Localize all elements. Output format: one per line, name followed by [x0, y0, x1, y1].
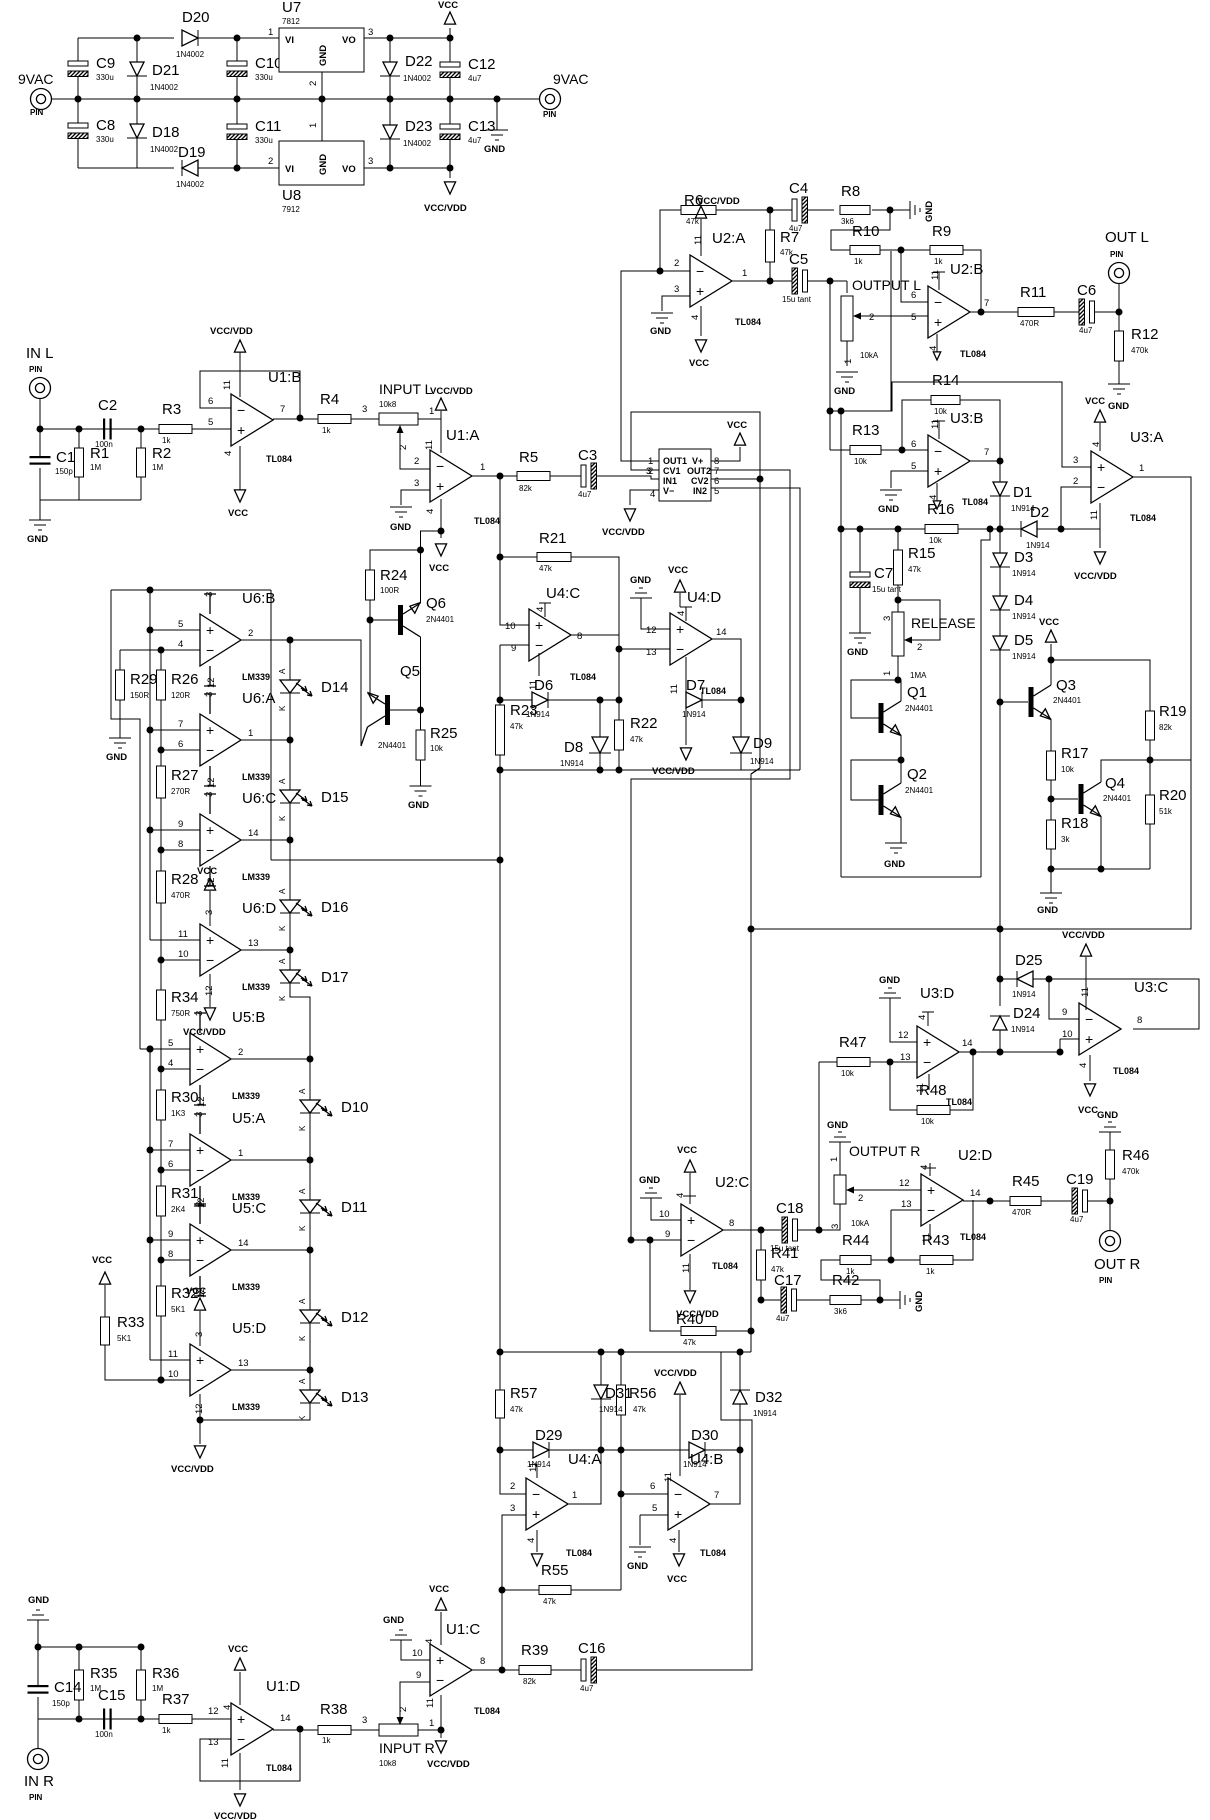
svg-text:120R: 120R — [171, 691, 190, 700]
svg-text:C12: C12 — [468, 56, 496, 73]
svg-text:GND: GND — [390, 522, 411, 533]
svg-text:2N4401: 2N4401 — [905, 704, 934, 713]
svg-text:R31: R31 — [171, 1185, 199, 1202]
pin OUT R — [1109, 1201, 1111, 1231]
svg-text:−: − — [196, 1162, 204, 1178]
diode D31 — [600, 1352, 602, 1385]
U5:D VCC/VDD flag — [199, 1420, 201, 1444]
svg-text:U7: U7 — [282, 0, 301, 16]
Q1 emitter to Q2 collector — [900, 735, 902, 760]
svg-text:VI: VI — [285, 164, 294, 175]
svg-text:2: 2 — [1073, 476, 1078, 487]
svg-text:47k: 47k — [630, 735, 644, 744]
svg-text:4: 4 — [424, 1639, 435, 1644]
resistor R38 — [318, 1726, 351, 1735]
D2 to U3:A - input — [1061, 487, 1091, 529]
transistor Q5 — [390, 709, 421, 711]
svg-text:5: 5 — [652, 1503, 657, 1514]
capacitor C11 — [234, 165, 241, 172]
svg-text:VO: VO — [342, 35, 356, 46]
Q2 collector wire — [900, 760, 902, 783]
svg-text:GND: GND — [1037, 905, 1058, 916]
svg-text:+: + — [535, 617, 543, 633]
wire chain D14 anode — [289, 740, 291, 790]
svg-text:D12: D12 — [341, 1309, 369, 1326]
resistor R17 — [1047, 751, 1056, 780]
OUTPUT L pot pin1 gnd — [846, 341, 848, 366]
U6:D output wire pin 13 — [241, 949, 290, 951]
svg-text:9VAC: 9VAC — [553, 71, 589, 87]
svg-text:VCC/VDD: VCC/VDD — [1074, 571, 1117, 582]
U5:C + input wire pin 9 — [150, 1239, 190, 1241]
svg-text:RELEASE: RELEASE — [911, 615, 976, 631]
svg-text:A: A — [278, 778, 287, 784]
LED D17 — [280, 970, 300, 983]
U1:D power pin11 down — [239, 1753, 241, 1790]
U2:D - input wire — [891, 1209, 921, 1211]
svg-text:330u: 330u — [96, 135, 114, 144]
transistor Q4 — [1079, 784, 1084, 814]
svg-text:R40: R40 — [676, 1311, 704, 1328]
svg-text:7: 7 — [984, 447, 989, 458]
svg-text:8: 8 — [729, 1218, 734, 1229]
divider resistor R29 to gnd — [120, 649, 161, 651]
svg-text:12: 12 — [194, 1403, 205, 1414]
svg-text:U4:C: U4:C — [546, 585, 580, 602]
U6:A output wire pin 1 — [241, 739, 290, 741]
svg-text:2: 2 — [648, 466, 653, 477]
svg-text:K: K — [278, 995, 287, 1001]
U2:B output wire — [970, 311, 1018, 313]
svg-text:1N4002: 1N4002 — [403, 74, 432, 83]
svg-text:C1: C1 — [56, 449, 75, 466]
svg-text:VCC: VCC — [689, 358, 709, 369]
svg-text:2: 2 — [674, 258, 679, 269]
wire 9VAC-L to rails — [52, 98, 79, 100]
U2:A + input gnd — [662, 296, 690, 311]
svg-text:R46: R46 — [1122, 1147, 1150, 1164]
U4:A + input wire — [502, 1515, 526, 1590]
svg-text:OUT R: OUT R — [1094, 1256, 1141, 1273]
svg-text:R32: R32 — [171, 1285, 199, 1302]
resistor R11 — [1018, 308, 1054, 317]
svg-text:D14: D14 — [321, 679, 349, 696]
svg-text:11: 11 — [693, 235, 704, 245]
diode D3 — [999, 529, 1001, 553]
svg-text:U8: U8 — [282, 187, 301, 204]
svg-text:K: K — [298, 1335, 307, 1341]
diode D29 — [500, 1449, 533, 1451]
svg-text:3: 3 — [368, 27, 373, 38]
svg-text:R14: R14 — [932, 372, 960, 389]
transistor Q1 — [898, 680, 901, 701]
svg-text:U6:C: U6:C — [242, 790, 276, 807]
U4:A - input wire — [500, 1450, 526, 1494]
svg-text:R33: R33 — [117, 1314, 145, 1331]
svg-text:3: 3 — [1073, 455, 1078, 466]
rail B IN R — [38, 1718, 159, 1720]
U3:C - input wire — [1049, 979, 1079, 1019]
resistor R12 — [1118, 312, 1120, 331]
resistor R48 feedback — [890, 1062, 917, 1110]
svg-text:R10: R10 — [852, 223, 880, 240]
svg-text:R42: R42 — [832, 1272, 860, 1289]
svg-text:+: + — [196, 1041, 204, 1057]
svg-text:U3:C: U3:C — [1134, 979, 1168, 996]
svg-text:3: 3 — [194, 1332, 205, 1337]
svg-text:U5:A: U5:A — [232, 1110, 265, 1127]
svg-text:OUT L: OUT L — [1105, 229, 1149, 246]
svg-text:TL084: TL084 — [1130, 513, 1156, 523]
U3:A power flag VCC up — [1099, 423, 1101, 451]
wire chain D12 anode — [309, 1250, 311, 1310]
svg-text:2: 2 — [414, 456, 419, 467]
svg-text:D16: D16 — [321, 899, 349, 916]
svg-text:10kA: 10kA — [860, 351, 879, 360]
svg-text:R57: R57 — [510, 1385, 538, 1402]
svg-text:VCC/VDD: VCC/VDD — [654, 1368, 697, 1379]
svg-text:7: 7 — [178, 719, 183, 730]
svg-text:R9: R9 — [932, 223, 951, 240]
svg-text:D15: D15 — [321, 789, 349, 806]
U2:C - input wire — [628, 1237, 635, 1244]
resistor R25 — [420, 710, 422, 730]
LED D10 — [300, 1100, 320, 1113]
resistor R10 — [831, 210, 890, 250]
pin OUT L — [1118, 283, 1120, 312]
op-amp U3:A — [1091, 451, 1133, 503]
capacitor C6 — [1079, 299, 1085, 325]
svg-text:C18: C18 — [776, 1200, 804, 1217]
svg-text:VCC: VCC — [1078, 1105, 1098, 1116]
svg-text:9: 9 — [416, 1670, 421, 1681]
U5:D + input wire pin 11 — [150, 1359, 190, 1361]
svg-text:D6: D6 — [534, 677, 553, 694]
resistor R4 — [318, 415, 351, 424]
svg-text:D10: D10 — [341, 1099, 369, 1116]
U5:C - input wire pin 8 — [161, 1259, 190, 1261]
Q3 emitter to R17 — [1050, 719, 1052, 751]
svg-text:D24: D24 — [1013, 1005, 1041, 1022]
svg-text:LM339: LM339 — [232, 1282, 260, 1292]
diode D6 — [497, 697, 504, 704]
svg-text:+: + — [237, 422, 245, 438]
svg-text:+: + — [696, 283, 704, 299]
svg-text:D13: D13 — [341, 1389, 369, 1406]
svg-text:C14: C14 — [54, 1679, 82, 1696]
op-amp U1:B — [231, 394, 273, 446]
svg-text:GND: GND — [484, 144, 505, 155]
svg-text:1: 1 — [238, 1148, 243, 1159]
D chain down to CV rail — [999, 702, 1001, 979]
svg-text:PIN: PIN — [1099, 1276, 1113, 1285]
R44 to - input — [890, 1210, 892, 1260]
svg-text:K: K — [298, 1125, 307, 1131]
svg-text:150p: 150p — [52, 1699, 70, 1708]
CV2 pin6 wire — [711, 478, 760, 480]
svg-text:+: + — [206, 622, 214, 638]
svg-text:47k: 47k — [510, 722, 524, 731]
U6:D power pin 12 VCC/VDD flag — [209, 974, 211, 1007]
svg-text:1N4002: 1N4002 — [176, 50, 205, 59]
diode D8 — [599, 700, 601, 739]
svg-text:4: 4 — [223, 451, 234, 456]
svg-text:VCC/VDD: VCC/VDD — [171, 1464, 214, 1475]
svg-text:330u: 330u — [255, 73, 273, 82]
svg-text:3: 3 — [362, 404, 367, 415]
rail A IN R — [38, 1646, 141, 1648]
threshold box left wire — [840, 529, 842, 877]
svg-text:1N914: 1N914 — [1012, 990, 1036, 999]
svg-text:10k8: 10k8 — [379, 400, 397, 409]
U2:C power flag VCC — [684, 1160, 695, 1172]
svg-text:1MA: 1MA — [910, 671, 927, 680]
svg-text:PIN: PIN — [29, 365, 43, 374]
svg-text:R29: R29 — [130, 671, 158, 688]
svg-text:47k: 47k — [683, 1338, 697, 1347]
svg-text:3k: 3k — [1061, 835, 1070, 844]
U6:D power pin 3 VCC flag — [209, 891, 211, 926]
svg-text:TL084: TL084 — [566, 1548, 592, 1558]
trunk vertical from U1:A — [500, 476, 529, 625]
svg-text:47k: 47k — [633, 1405, 647, 1414]
svg-text:C4: C4 — [789, 180, 808, 197]
svg-text:VCC/VDD: VCC/VDD — [424, 203, 467, 214]
svg-text:INPUT L: INPUT L — [379, 381, 433, 397]
comparator U5:A — [190, 1134, 231, 1186]
U5:D power pin 12 wire — [199, 1394, 201, 1420]
capacitor C12 — [447, 35, 454, 42]
svg-text:1k: 1k — [322, 1736, 331, 1745]
op-amp U2:D — [921, 1174, 963, 1226]
U2:B - input wire — [901, 250, 928, 302]
svg-text:C17: C17 — [774, 1272, 802, 1289]
svg-text:GND: GND — [834, 386, 855, 397]
svg-text:+: + — [196, 1232, 204, 1248]
U6:C output wire pin 14 — [241, 839, 290, 841]
wire U8 output — [364, 167, 450, 169]
resistor R26 — [160, 650, 162, 670]
svg-text:8: 8 — [1137, 1015, 1142, 1026]
gnd rail under R1 R2 — [40, 499, 141, 501]
svg-text:R12: R12 — [1131, 326, 1159, 343]
svg-text:GND: GND — [318, 45, 329, 66]
svg-text:R26: R26 — [171, 671, 199, 688]
svg-text:D3: D3 — [1014, 549, 1033, 566]
svg-text:−: − — [934, 294, 942, 310]
svg-text:R56: R56 — [629, 1385, 657, 1402]
svg-text:1N4002: 1N4002 — [176, 180, 205, 189]
svg-text:12: 12 — [204, 985, 215, 996]
svg-text:12: 12 — [208, 1706, 219, 1717]
svg-text:D17: D17 — [321, 969, 349, 986]
svg-text:10k: 10k — [854, 457, 868, 466]
svg-text:1N914: 1N914 — [1012, 569, 1036, 578]
comparator U6:D — [200, 924, 241, 976]
resistor R47 — [819, 1061, 837, 1063]
svg-text:R37: R37 — [162, 1691, 190, 1708]
svg-text:4u7: 4u7 — [776, 1314, 790, 1323]
svg-text:470R: 470R — [1012, 1208, 1031, 1217]
svg-text:2: 2 — [238, 1047, 243, 1058]
input rail L — [40, 428, 159, 430]
Q6 collector wire to Q5 base — [420, 637, 422, 710]
LED D14 — [280, 680, 300, 693]
U5:D output wire pin 13 — [231, 1369, 310, 1371]
LED D11 — [300, 1200, 320, 1213]
svg-text:OUT2: OUT2 — [687, 466, 711, 476]
svg-text:TL084: TL084 — [960, 349, 986, 359]
diode D21 — [134, 35, 141, 42]
svg-text:R34: R34 — [171, 989, 199, 1006]
svg-text:TL084: TL084 — [735, 317, 761, 327]
R33 wire to divider bottom — [105, 1345, 190, 1380]
U5:B output wire pin 2 — [231, 1058, 310, 1060]
ground C7 — [849, 633, 871, 643]
U7 ground pin wire — [321, 72, 323, 99]
CV1 pin2 loop to CV2 — [631, 412, 760, 479]
wire D14 cathode down — [289, 693, 291, 740]
svg-text:GND: GND — [650, 326, 671, 337]
op-amp U1:A — [430, 450, 472, 502]
svg-text:VCC: VCC — [1039, 617, 1059, 628]
capacitor C17 — [761, 1299, 781, 1301]
svg-text:1: 1 — [268, 27, 273, 38]
svg-text:C13: C13 — [468, 118, 496, 135]
svg-text:10: 10 — [505, 621, 516, 632]
wire D11 cathode down — [309, 1213, 311, 1250]
svg-text:51k: 51k — [1159, 807, 1173, 816]
svg-text:LM339: LM339 — [242, 772, 270, 782]
svg-text:R25: R25 — [430, 725, 458, 742]
LED chain top — [289, 640, 291, 680]
U5:D - input wire pin 10 — [161, 1379, 190, 1381]
svg-text:+: + — [934, 463, 942, 479]
U1:A pin3 gnd — [401, 490, 430, 505]
U5:C output wire pin 14 — [231, 1249, 310, 1251]
svg-text:K: K — [298, 1225, 307, 1231]
svg-text:−: − — [535, 637, 543, 653]
U6:D + input wire pin 11 — [150, 939, 200, 941]
svg-text:470k: 470k — [1131, 346, 1149, 355]
R21 wire to U4:D minus — [571, 557, 619, 700]
svg-text:4u7: 4u7 — [1079, 326, 1093, 335]
LED D15 — [280, 790, 300, 803]
svg-text:TL084: TL084 — [700, 1548, 726, 1558]
OUT1 pin1 wire up to U2:A — [621, 271, 660, 461]
svg-text:R15: R15 — [908, 545, 936, 562]
svg-text:+: + — [196, 1142, 204, 1158]
pot INPUT R — [379, 1724, 418, 1736]
U5:D power pin 3 VCC flag — [199, 1311, 201, 1346]
svg-text:1: 1 — [308, 123, 319, 128]
diode D1 — [999, 461, 1001, 482]
R6 loop wire up — [660, 210, 681, 271]
svg-text:7: 7 — [280, 404, 285, 415]
diode D4 — [993, 596, 1007, 610]
svg-text:U2:A: U2:A — [712, 230, 745, 247]
svg-text:R43: R43 — [922, 1232, 950, 1249]
svg-text:VCC/VDD: VCC/VDD — [210, 326, 253, 337]
svg-text:U1:C: U1:C — [446, 1621, 480, 1638]
U6:B + input wire pin 5 — [150, 629, 200, 631]
capacitor C3 — [581, 465, 586, 487]
Q2 emitter to ground — [900, 817, 902, 843]
svg-text:TL084: TL084 — [1113, 1066, 1139, 1076]
U5:A output wire pin 1 — [231, 1159, 310, 1161]
svg-text:5: 5 — [178, 619, 183, 630]
svg-text:330u: 330u — [96, 73, 114, 82]
svg-text:1N914: 1N914 — [599, 1405, 623, 1414]
audio feed rail to trunk — [271, 859, 500, 861]
svg-text:U4:D: U4:D — [687, 589, 721, 606]
svg-text:U6:B: U6:B — [242, 590, 275, 607]
svg-text:270R: 270R — [171, 787, 190, 796]
svg-text:D4: D4 — [1014, 592, 1033, 609]
svg-text:3: 3 — [510, 1503, 515, 1514]
svg-text:+: + — [934, 314, 942, 330]
svg-text:D32: D32 — [755, 1389, 783, 1406]
svg-text:GND: GND — [639, 1175, 660, 1186]
svg-text:10k: 10k — [934, 407, 948, 416]
svg-text:U6:D: U6:D — [242, 900, 276, 917]
svg-text:CV1: CV1 — [663, 466, 681, 476]
resistor R15 — [897, 529, 899, 550]
transistor Q6 — [369, 600, 371, 620]
svg-text:−: − — [934, 443, 942, 459]
diode D30 — [621, 1449, 689, 1451]
resistor R9 — [930, 246, 963, 255]
svg-text:PIN: PIN — [29, 1793, 43, 1802]
U1:A pin 11 wire — [440, 419, 442, 453]
svg-text:K: K — [278, 705, 287, 711]
comparator U5:B — [190, 1033, 231, 1085]
svg-text:7: 7 — [168, 1139, 173, 1150]
svg-text:11: 11 — [1080, 987, 1091, 997]
svg-text:VCC/VDD: VCC/VDD — [427, 1759, 470, 1770]
svg-text:1k: 1k — [926, 1267, 935, 1276]
svg-text:GND: GND — [878, 504, 899, 515]
svg-text:A: A — [298, 1088, 307, 1094]
U2:C output wire — [723, 1229, 782, 1231]
svg-text:+: + — [196, 1352, 204, 1368]
svg-text:GND: GND — [27, 534, 48, 545]
capacitor C14 — [37, 1647, 39, 1685]
svg-text:VCC: VCC — [228, 1644, 248, 1655]
svg-text:−: − — [927, 1202, 935, 1218]
svg-text:VCC: VCC — [429, 1584, 449, 1595]
svg-text:11: 11 — [168, 1349, 178, 1360]
U6:C + input wire pin 9 — [150, 829, 200, 831]
svg-text:1: 1 — [480, 462, 485, 473]
svg-text:U2:C: U2:C — [715, 1174, 749, 1191]
diode D9 — [740, 700, 742, 739]
svg-text:GND: GND — [28, 1595, 49, 1606]
svg-text:7: 7 — [984, 298, 989, 309]
svg-text:8: 8 — [480, 1656, 485, 1667]
resistor R20 — [1149, 760, 1151, 795]
resistor R41 — [760, 1230, 762, 1250]
svg-text:7: 7 — [714, 1490, 719, 1501]
top rail wire — [78, 37, 174, 39]
threshold box right riser — [981, 529, 990, 877]
svg-text:11: 11 — [1089, 510, 1100, 520]
svg-text:VI: VI — [285, 35, 294, 46]
svg-text:PIN: PIN — [543, 110, 557, 119]
comparator U5:D — [190, 1344, 231, 1396]
svg-text:2N4401: 2N4401 — [426, 615, 455, 624]
svg-text:3: 3 — [368, 156, 373, 167]
